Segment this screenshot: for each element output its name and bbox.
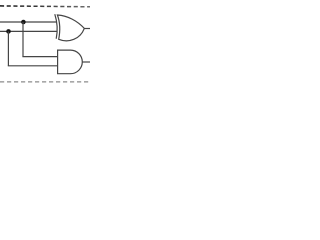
wire input A — [0, 21, 57, 23]
wire input B — [0, 30, 57, 32]
xor gate U1 body — [57, 15, 84, 41]
wire A branch horizontal to AND input 1 — [22, 56, 57, 58]
wire A branch vertical — [22, 22, 24, 57]
background — [0, 0, 90, 90]
xor gate U1 extra input arc — [55, 14, 57, 39]
wire B branch vertical — [7, 31, 9, 65]
dashed boundary line bottom — [0, 81, 90, 83]
and gate U2 body — [58, 50, 83, 74]
wire B branch horizontal to AND input 2 — [8, 65, 58, 67]
dashed boundary line top — [0, 5, 90, 8]
wire and output — [82, 61, 90, 63]
wire xor output — [84, 28, 90, 30]
node junction dot A — [21, 20, 26, 25]
node junction dot B — [6, 29, 11, 34]
